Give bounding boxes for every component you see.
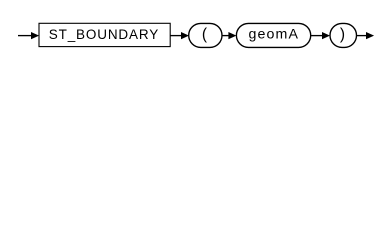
arrowhead: end of rule [366, 32, 374, 39]
oval: ( terminal [189, 23, 222, 47]
wire: entry line [18, 35, 32, 37]
wire: box to ( [170, 35, 182, 37]
svg-text:(: ( [202, 26, 208, 43]
box: ST_BOUNDARY keyword [39, 23, 170, 46]
svg-text:geomA: geomA [248, 27, 298, 43]
wire: ( to geomA [222, 35, 229, 37]
oval: geomA parameter [236, 23, 310, 47]
wire: geomA to ) [311, 35, 323, 37]
wire: exit line [357, 35, 367, 37]
arrowhead into ) oval [322, 32, 330, 39]
oval: ) terminal [330, 23, 357, 47]
svg-text:ST_BOUNDARY: ST_BOUNDARY [49, 27, 159, 42]
svg-text:): ) [340, 26, 345, 43]
arrowhead into ST_BOUNDARY box [31, 32, 39, 39]
arrowhead into geomA oval [228, 32, 236, 39]
arrowhead into ( oval [181, 32, 189, 39]
